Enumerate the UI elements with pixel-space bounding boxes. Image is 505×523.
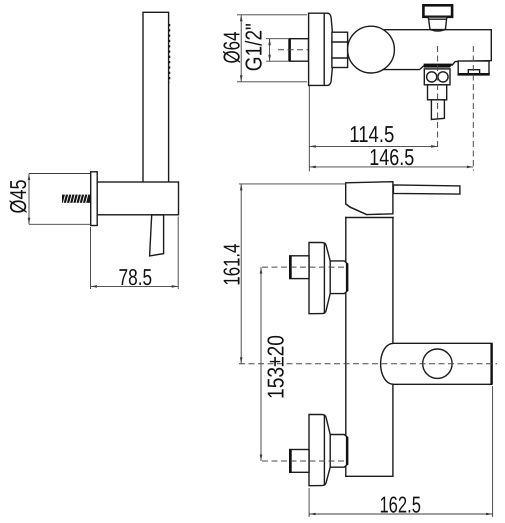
spout screw (423, 349, 452, 378)
dimension Ø64 line (240, 15, 242, 82)
spout block thick bottom (458, 73, 490, 76)
dimension 161.4 line (240, 184, 242, 364)
head lower diagonal (346, 204, 367, 215)
body right edge upper (392, 218, 394, 344)
wall flange (309, 13, 333, 85)
body left edge (345, 218, 347, 477)
bottom union flange face line (323, 415, 325, 485)
dimension 78.5 extension lines (90, 227, 92, 289)
handle lower tip (150, 215, 164, 256)
dimension 78.5 line (91, 285, 179, 287)
outlet connector box (424, 69, 450, 85)
bottom union nipple (290, 450, 309, 473)
lever handle (393, 185, 460, 194)
top union flange face line (323, 243, 325, 313)
diverter knob cap (423, 5, 452, 16)
hex nut (332, 32, 348, 67)
dimension Ø64 extension lines (237, 14, 307, 16)
svg-text:162.5: 162.5 (379, 491, 421, 517)
cartridge head (346, 182, 393, 215)
top union nut (330, 261, 348, 294)
outlet centerline (437, 46, 439, 151)
svg-text:146.5: 146.5 (369, 144, 414, 170)
body right edge lower (392, 384, 394, 476)
top union nipple (290, 256, 309, 279)
nut facet lines (332, 41, 348, 43)
body outline (383, 30, 491, 70)
dimension 162.5 extension lines (308, 488, 310, 517)
threaded rod (62, 194, 91, 203)
body bottom edge (346, 475, 393, 477)
dimension Ø45 line (28, 174, 30, 225)
svg-text:G1/2": G1/2" (240, 23, 266, 71)
body top line (346, 217, 394, 219)
spray nozzle dots (168, 24, 170, 83)
spout right edge thick (490, 343, 492, 384)
dimension G1/2 line (269, 39, 271, 62)
knob base arc (431, 30, 445, 31)
svg-text:78.5: 78.5 (119, 264, 153, 290)
outlet check valves (427, 72, 437, 82)
svg-text:153±20: 153±20 (263, 335, 289, 399)
bottom union flange (309, 414, 330, 485)
dimension 146.5 line (309, 166, 473, 168)
wall plate (91, 172, 98, 226)
top union flange (309, 242, 330, 313)
dimension 161.4 extension line (239, 183, 346, 185)
outlet flange bar (424, 64, 450, 68)
G1/2 nipple (290, 39, 309, 62)
mixer body (346, 218, 393, 477)
wall plane extension line (308, 86, 310, 172)
outlet stem (431, 100, 444, 120)
spout block (458, 61, 489, 74)
spout front view (381, 343, 492, 384)
nipple centerline (278, 49, 325, 51)
top union centerline (262, 266, 347, 268)
bracket block (97, 182, 179, 215)
spout centerline (472, 46, 474, 171)
flange face line (323, 14, 325, 85)
dimension Ø45 extension lines (29, 173, 91, 175)
bottom union centerline (262, 460, 347, 462)
spout centerline front (239, 363, 497, 365)
knob collar line (429, 18, 447, 20)
svg-text:Ø45: Ø45 (5, 180, 31, 214)
dimension G1/2 extension lines (266, 38, 289, 40)
outlet mid section (428, 85, 447, 100)
diverter knob stem (428, 17, 447, 30)
bottom union nut (330, 435, 348, 468)
dimension 153±20 line (260, 267, 262, 461)
svg-text:161.4: 161.4 (218, 243, 244, 285)
spout notch (468, 70, 479, 74)
dimension 162.5 line (309, 513, 493, 515)
hand shower handle (143, 12, 169, 184)
dimension 114.5 line (309, 145, 437, 147)
ball joint (348, 26, 395, 73)
